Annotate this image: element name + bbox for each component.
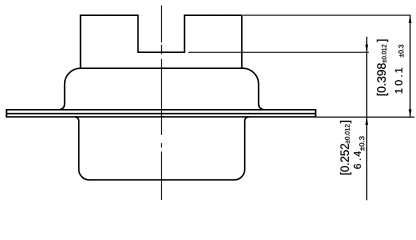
dimension text [0.252 (inch value, rotated) bbox=[340, 144, 351, 175]
mounting flange middle line bbox=[7, 113, 316, 115]
dimension line 10.1 (tab top to flange bottom) bbox=[409, 16, 411, 117]
dimension text 10.1 (mm value, rotated) bbox=[395, 68, 402, 93]
shell tabs outline (two raised tabs with center notch) bbox=[81, 15, 242, 68]
dimension tolerance +-0.3 (rotated) bbox=[359, 136, 364, 150]
arrowhead up (top of 10.1) bbox=[409, 15, 412, 23]
extension line: flange bottom plane bbox=[316, 116, 414, 118]
dimension text [0.398 (inch value, rotated) bbox=[377, 63, 388, 95]
dimension closing bracket ] (rotated) bbox=[377, 40, 388, 42]
dimension tolerance +-0.012 (rotated) bbox=[382, 45, 387, 63]
centerline (vertical dash-dot) bbox=[161, 6, 163, 201]
dimension text 6.4 (mm value, rotated) bbox=[354, 151, 361, 168]
dimension line 6.4 (notch plane to flange bottom, outside arrows) bbox=[366, 37, 368, 201]
flange left end cap bbox=[6, 109, 8, 118]
mounting flange bottom line bbox=[7, 116, 316, 118]
moulded body outline (rounded shoulders, flared base fillets) bbox=[59, 68, 264, 110]
arrowhead up (pointing at flange bottom) bbox=[365, 117, 368, 125]
tab bump left-2 bbox=[103, 13, 111, 16]
extension line: tab top plane bbox=[243, 14, 411, 16]
tab bump right-2 bbox=[223, 13, 230, 16]
dimension tolerance +-0.012 (rotated) bbox=[345, 124, 350, 143]
tab bump right-1 bbox=[210, 13, 217, 16]
dimension tolerance +-0.3 (rotated) bbox=[399, 45, 404, 58]
mounting flange top line bbox=[7, 109, 316, 111]
tab bump left-1 bbox=[90, 13, 98, 16]
dimension closing bracket ] (rotated) bbox=[340, 121, 351, 123]
extension line: notch bottom plane bbox=[188, 51, 369, 53]
flange right end cap bbox=[315, 109, 317, 118]
lower shell body outline bbox=[75, 117, 249, 180]
arrowhead down (bottom of 10.1) bbox=[409, 109, 412, 117]
arrowhead down (pointing at notch plane) bbox=[365, 45, 368, 53]
